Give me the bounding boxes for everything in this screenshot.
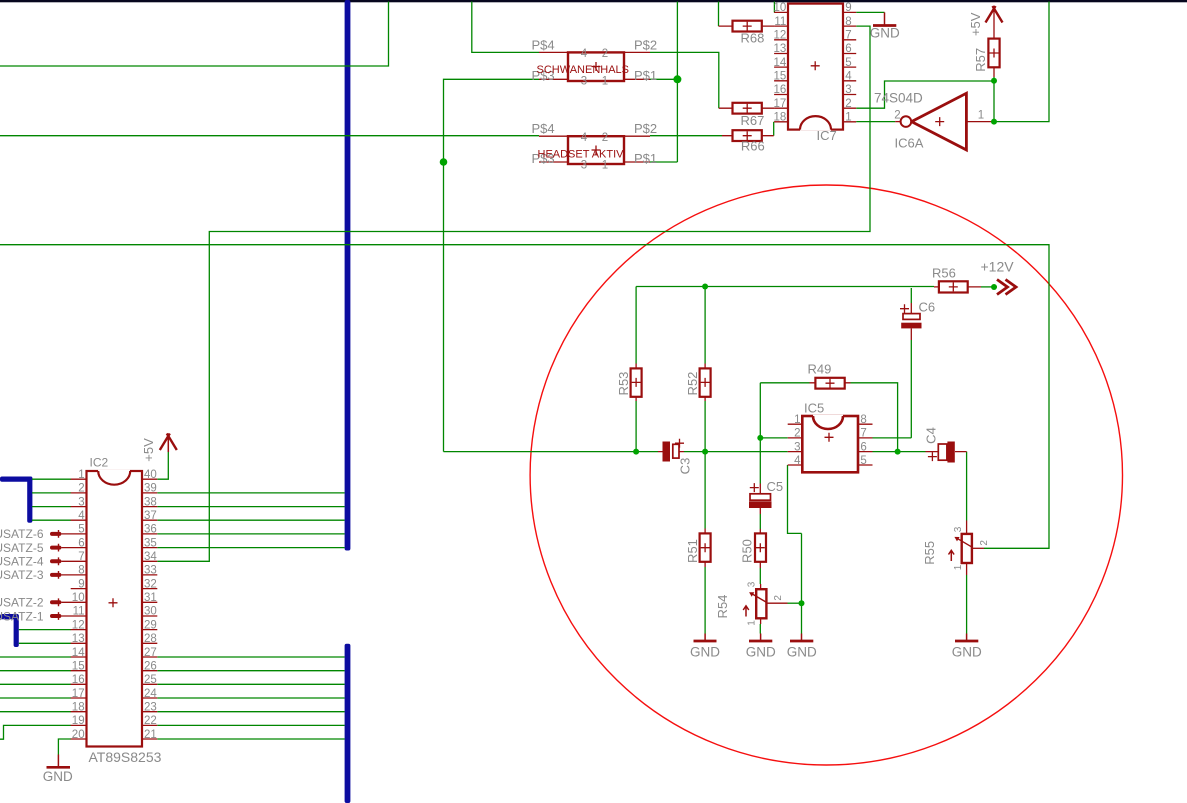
svg-text:8: 8	[860, 414, 866, 426]
svg-text:4: 4	[581, 48, 588, 60]
svg-text:36: 36	[144, 524, 157, 536]
svg-text:R67: R67	[741, 113, 765, 128]
svg-text:1: 1	[953, 564, 964, 570]
svg-text:2: 2	[773, 595, 784, 601]
svg-text:USATZ-5: USATZ-5	[0, 541, 44, 555]
svg-text:35: 35	[144, 537, 157, 549]
svg-text:11: 11	[774, 16, 786, 28]
svg-text:3: 3	[581, 76, 587, 88]
svg-text:7: 7	[845, 30, 851, 42]
svg-text:1: 1	[845, 112, 851, 124]
svg-text:6: 6	[860, 441, 866, 453]
svg-text:34: 34	[144, 551, 157, 563]
svg-text:SCHWANENHALS: SCHWANENHALS	[537, 64, 630, 76]
svg-text:3: 3	[581, 159, 587, 171]
svg-text:74S04D: 74S04D	[874, 91, 923, 106]
svg-text:USATZ-4: USATZ-4	[0, 555, 44, 569]
svg-text:USATZ-1: USATZ-1	[0, 609, 44, 623]
svg-text:21: 21	[144, 729, 157, 741]
svg-text:22: 22	[144, 715, 157, 727]
svg-text:13: 13	[774, 43, 787, 55]
svg-text:26: 26	[144, 661, 157, 673]
svg-text:AT89S8253: AT89S8253	[89, 749, 162, 765]
svg-text:1: 1	[747, 620, 758, 626]
svg-text:2: 2	[794, 428, 800, 440]
svg-text:30: 30	[144, 606, 157, 618]
svg-text:R68: R68	[741, 30, 765, 45]
svg-text:15: 15	[72, 661, 85, 673]
svg-text:7: 7	[860, 428, 866, 440]
svg-text:27: 27	[144, 647, 157, 659]
svg-text:P$1: P$1	[634, 151, 657, 166]
svg-text:IC2: IC2	[90, 456, 109, 470]
svg-text:IC5: IC5	[804, 401, 824, 416]
svg-text:4: 4	[581, 132, 588, 144]
svg-text:GND: GND	[746, 645, 776, 660]
svg-text:3: 3	[794, 441, 800, 453]
svg-text:10: 10	[774, 2, 787, 14]
svg-text:C5: C5	[767, 479, 784, 494]
svg-text:20: 20	[72, 729, 85, 741]
svg-text:R66: R66	[741, 139, 765, 154]
svg-text:R55: R55	[922, 541, 937, 565]
svg-text:32: 32	[144, 578, 157, 590]
svg-text:4: 4	[78, 510, 85, 522]
svg-text:P$1: P$1	[634, 68, 657, 83]
svg-text:2: 2	[602, 132, 608, 144]
svg-text:38: 38	[144, 496, 157, 508]
svg-text:16: 16	[774, 84, 787, 96]
svg-text:8: 8	[845, 16, 851, 28]
svg-text:1: 1	[78, 469, 84, 481]
svg-text:5: 5	[860, 455, 866, 467]
svg-text:9: 9	[78, 578, 84, 590]
svg-text:P$4: P$4	[532, 121, 555, 136]
svg-text:GND: GND	[870, 26, 900, 41]
svg-text:18: 18	[72, 702, 85, 714]
svg-text:10: 10	[72, 592, 85, 604]
svg-text:17: 17	[72, 688, 85, 700]
svg-text:3: 3	[78, 496, 84, 508]
svg-text:13: 13	[72, 633, 85, 645]
svg-text:+5V: +5V	[968, 12, 983, 36]
svg-text:2: 2	[845, 98, 851, 110]
svg-text:8: 8	[78, 565, 84, 577]
svg-text:2: 2	[602, 48, 608, 60]
svg-text:USATZ-3: USATZ-3	[0, 568, 44, 582]
svg-text:14: 14	[72, 647, 85, 659]
svg-text:39: 39	[144, 483, 157, 495]
svg-text:R52: R52	[685, 372, 700, 396]
svg-text:P$2: P$2	[634, 121, 657, 136]
svg-text:C4: C4	[924, 427, 939, 444]
svg-text:4: 4	[794, 455, 801, 467]
svg-text:R54: R54	[715, 595, 730, 619]
svg-text:6: 6	[845, 43, 851, 55]
svg-text:1: 1	[978, 110, 984, 122]
svg-text:28: 28	[144, 633, 157, 645]
svg-text:9: 9	[845, 2, 851, 14]
svg-text:USATZ-2: USATZ-2	[0, 596, 44, 610]
svg-text:IC6A: IC6A	[895, 136, 924, 151]
svg-text:3: 3	[845, 84, 851, 96]
svg-text:C3: C3	[678, 458, 693, 475]
svg-text:12: 12	[72, 619, 85, 631]
svg-text:15: 15	[774, 71, 787, 83]
svg-text:1: 1	[602, 159, 608, 171]
svg-text:2: 2	[78, 483, 84, 495]
svg-text:USATZ-6: USATZ-6	[0, 527, 44, 541]
svg-text:5: 5	[845, 57, 851, 69]
svg-text:17: 17	[774, 98, 787, 110]
svg-text:40: 40	[144, 469, 157, 481]
svg-text:P$2: P$2	[634, 37, 657, 52]
svg-text:GND: GND	[952, 645, 982, 660]
svg-text:2: 2	[894, 110, 900, 122]
svg-text:+5V: +5V	[141, 438, 156, 462]
svg-text:19: 19	[72, 715, 85, 727]
svg-text:12: 12	[774, 30, 787, 42]
svg-text:1: 1	[794, 414, 800, 426]
svg-text:11: 11	[73, 606, 85, 618]
svg-text:6: 6	[78, 537, 84, 549]
svg-text:37: 37	[144, 510, 157, 522]
svg-text:R51: R51	[685, 539, 700, 563]
svg-text:R49: R49	[808, 361, 832, 376]
svg-text:24: 24	[144, 688, 157, 700]
svg-text:1: 1	[602, 76, 608, 88]
svg-text:GND: GND	[787, 645, 817, 660]
svg-text:IC7: IC7	[817, 128, 837, 143]
svg-text:23: 23	[144, 702, 157, 714]
svg-text:R56: R56	[932, 266, 956, 281]
svg-text:25: 25	[144, 674, 157, 686]
svg-text:33: 33	[144, 565, 157, 577]
svg-text:16: 16	[72, 674, 85, 686]
svg-text:2: 2	[979, 540, 990, 546]
svg-text:GND: GND	[43, 769, 73, 784]
svg-text:R50: R50	[740, 539, 755, 563]
svg-text:3: 3	[953, 526, 964, 532]
svg-text:7: 7	[78, 551, 84, 563]
svg-text:R57: R57	[973, 48, 988, 72]
svg-text:18: 18	[774, 112, 787, 124]
svg-text:29: 29	[144, 619, 157, 631]
svg-text:4: 4	[845, 71, 852, 83]
svg-text:5: 5	[78, 524, 84, 536]
svg-text:31: 31	[144, 592, 157, 604]
svg-text:3: 3	[747, 581, 758, 587]
svg-text:GND: GND	[690, 645, 720, 660]
svg-text:+12V: +12V	[981, 258, 1015, 274]
svg-text:HEADSET AKTIV: HEADSET AKTIV	[538, 149, 625, 161]
svg-text:R53: R53	[616, 372, 631, 396]
svg-text:C6: C6	[919, 299, 936, 314]
svg-text:P$4: P$4	[532, 37, 555, 52]
svg-text:14: 14	[774, 57, 787, 69]
